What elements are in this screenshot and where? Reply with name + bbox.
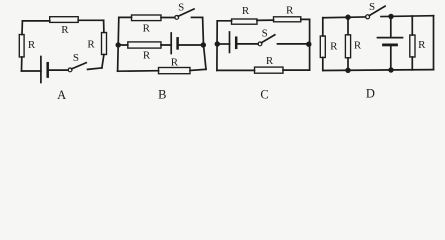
svg-text:R: R — [242, 5, 250, 17]
svg-text:S: S — [262, 27, 268, 39]
svg-text:S: S — [73, 52, 79, 64]
svg-text:R: R — [266, 55, 274, 67]
svg-text:R: R — [143, 49, 151, 61]
svg-text:C: C — [260, 87, 268, 101]
svg-text:R: R — [28, 39, 36, 51]
svg-text:R: R — [87, 39, 95, 51]
svg-text:R: R — [171, 57, 179, 69]
svg-text:R: R — [354, 40, 362, 52]
svg-text:R: R — [143, 23, 151, 35]
svg-text:R: R — [61, 24, 69, 36]
svg-text:B: B — [158, 88, 166, 102]
svg-text:R: R — [330, 40, 338, 52]
svg-text:D: D — [366, 87, 375, 101]
svg-text:A: A — [57, 88, 66, 102]
svg-text:R: R — [286, 4, 294, 16]
svg-text:R: R — [418, 39, 426, 51]
svg-text:S: S — [178, 1, 184, 13]
svg-text:S: S — [369, 1, 375, 13]
